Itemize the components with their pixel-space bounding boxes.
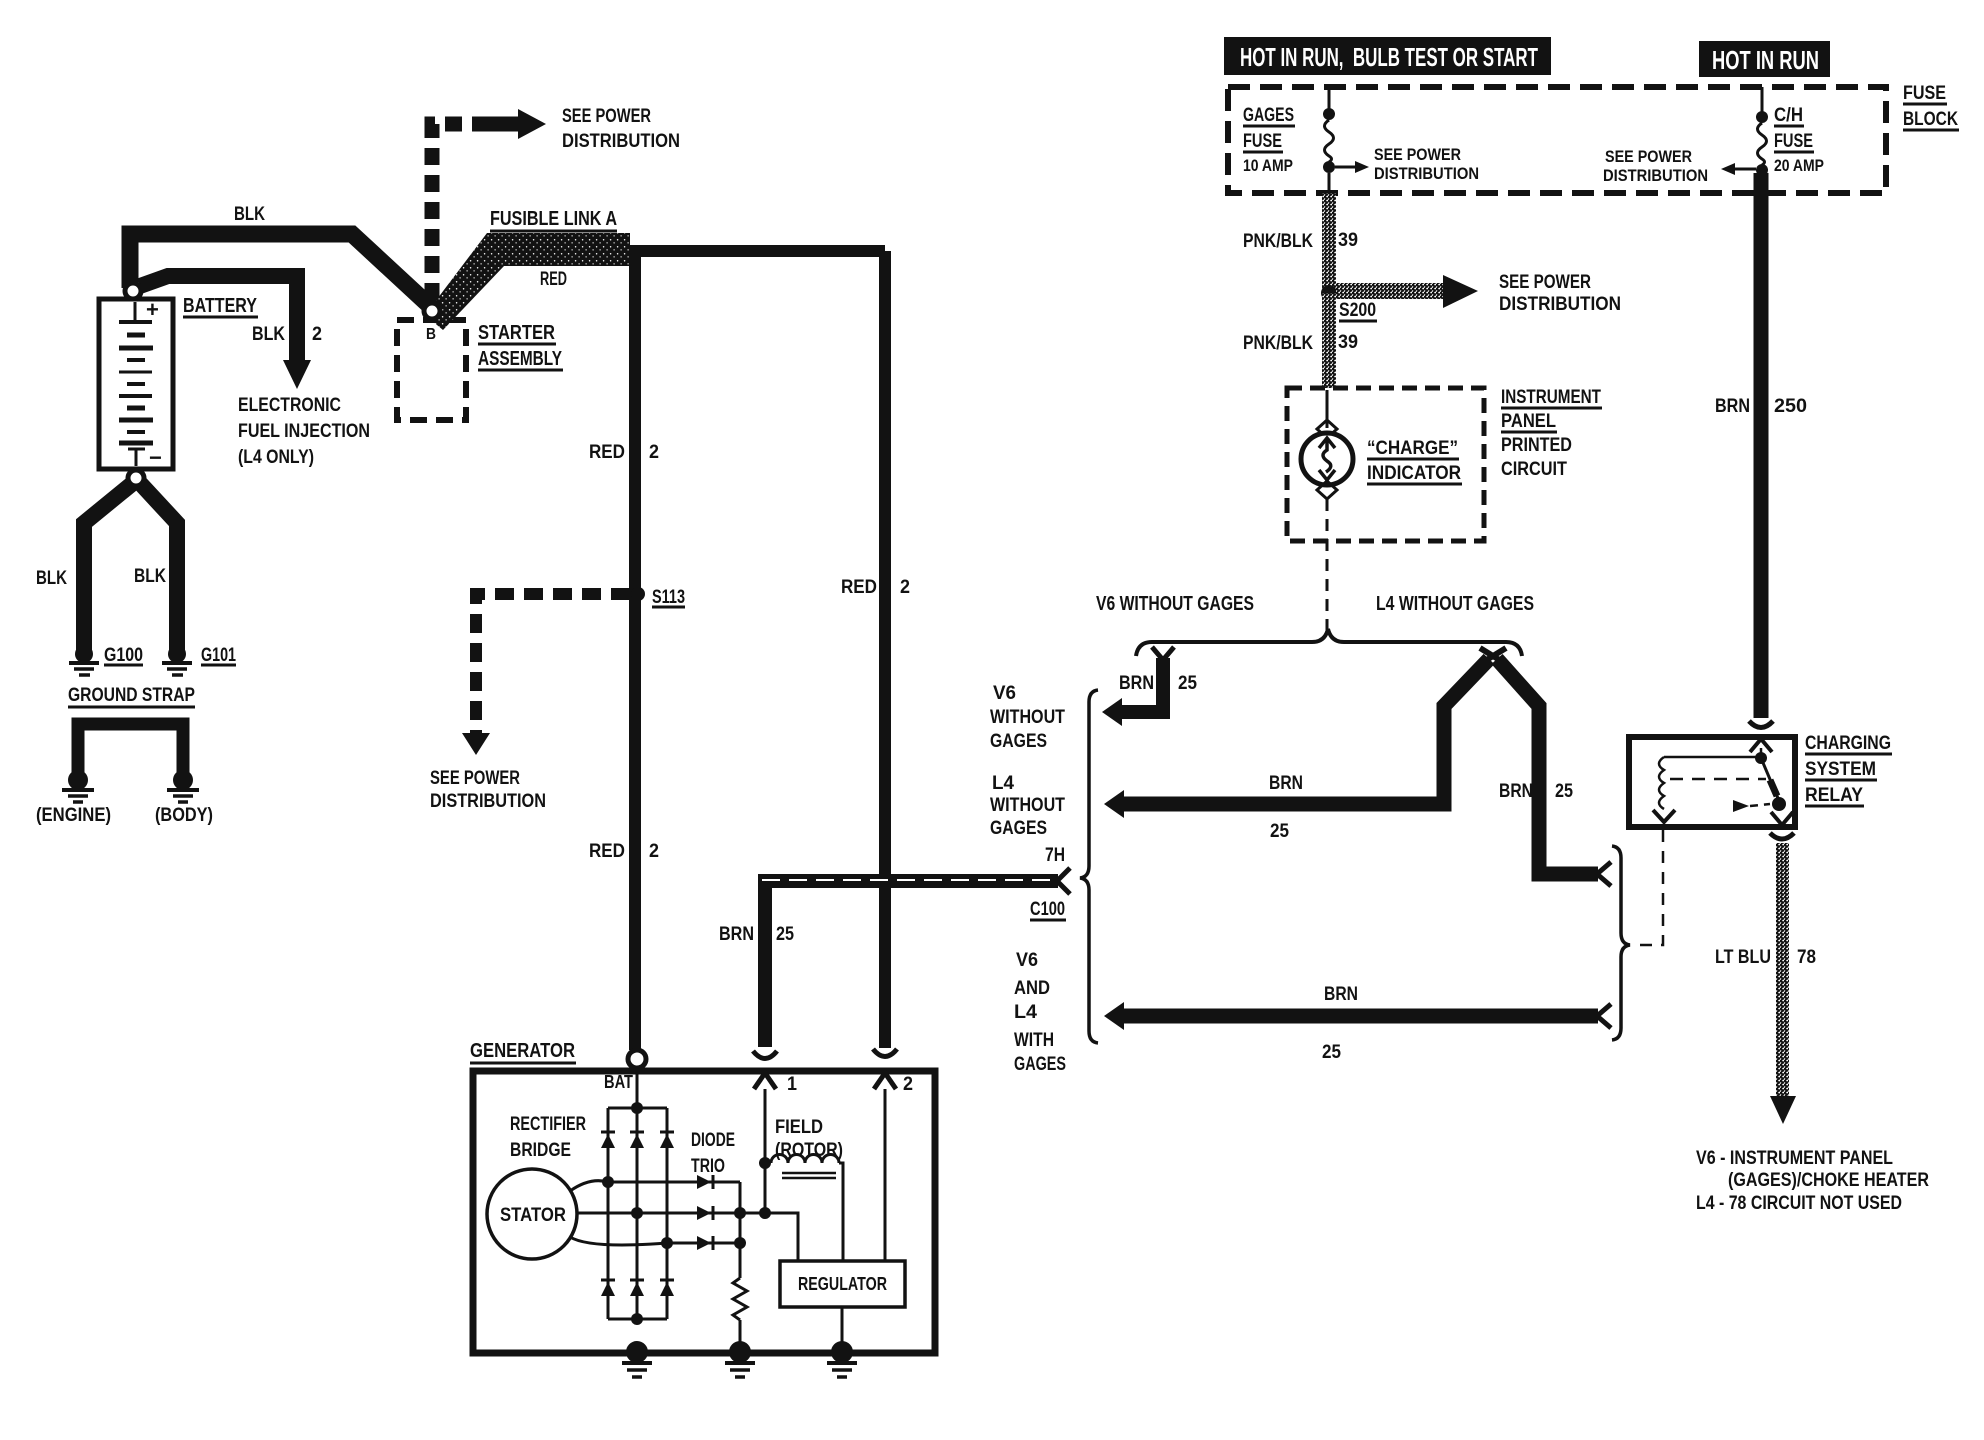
- svg-text:7H: 7H: [1045, 845, 1065, 866]
- svg-text:(ENGINE): (ENGINE): [36, 805, 111, 826]
- wire l4 right arm BRN 25 to connector: [1497, 659, 1598, 874]
- fusible link A conductor: [425, 233, 630, 330]
- svg-text:V6 - INSTRUMENT PANEL: V6 - INSTRUMENT PANEL: [1696, 1148, 1893, 1169]
- starter assembly dashed box: [397, 320, 466, 420]
- label GENERATOR: [470, 1040, 576, 1063]
- svg-text:FUSE: FUSE: [1774, 131, 1813, 152]
- svg-text:2: 2: [649, 442, 659, 463]
- relay dashed link: [1670, 778, 1766, 781]
- relay contact arrow: [1733, 800, 1749, 812]
- svg-text:HOT IN RUN, BULB TEST OR STAR: HOT IN RUN, BULB TEST OR START: [1240, 42, 1538, 72]
- starter terminal B: [424, 303, 440, 319]
- rectifier leg 1: [607, 1108, 610, 1319]
- svg-text:2: 2: [900, 577, 910, 598]
- svg-text:(L4 ONLY): (L4 ONLY): [238, 447, 314, 468]
- node field: [759, 1157, 771, 1169]
- label G101: [201, 645, 236, 666]
- C/H fuse element: [1756, 87, 1768, 176]
- relay switch blade: [1761, 758, 1780, 803]
- label column L4 WITHOUT GAGES: [990, 773, 1065, 839]
- svg-text:V6: V6: [1016, 950, 1038, 971]
- BAT terminal: [628, 1050, 646, 1068]
- svg-text:C/H: C/H: [1774, 105, 1803, 126]
- battery + terminal: [125, 283, 141, 299]
- label C/H FUSE 20 AMP: [1774, 105, 1824, 175]
- svg-text:PRINTED: PRINTED: [1501, 435, 1572, 456]
- wire BLK 2 to EFI with arrow: [140, 276, 297, 360]
- diode upper 2: [630, 1132, 644, 1148]
- label DIODE TRIO: [691, 1130, 735, 1177]
- svg-text:RED: RED: [589, 841, 625, 862]
- svg-text:C100: C100: [1030, 899, 1065, 920]
- svg-text:FIELD: FIELD: [775, 1117, 823, 1138]
- label SEE POWER DISTRIBUTION s200: [1499, 272, 1621, 315]
- terminal 1 arrow: [754, 1073, 776, 1089]
- svg-text:HOT IN RUN: HOT IN RUN: [1712, 45, 1819, 75]
- svg-text:25: 25: [776, 924, 794, 945]
- diode trio line 2: [637, 1212, 765, 1215]
- overbrace under headers: [1136, 629, 1522, 656]
- svg-text:78: 78: [1797, 947, 1816, 968]
- svg-text:RED: RED: [540, 269, 567, 290]
- node: [602, 1176, 614, 1188]
- resistor to ground: [733, 1243, 747, 1350]
- svg-text:BRN: BRN: [1324, 984, 1358, 1005]
- rectifier bridge top bus: [608, 1107, 667, 1110]
- svg-text:+: +: [146, 297, 159, 322]
- svg-text:BLOCK: BLOCK: [1903, 109, 1958, 130]
- svg-text:SYSTEM: SYSTEM: [1805, 759, 1876, 780]
- svg-text:RECTIFIER: RECTIFIER: [510, 1114, 586, 1135]
- label FUSE BLOCK: [1903, 83, 1959, 130]
- svg-text:DISTRIBUTION: DISTRIBUTION: [1499, 294, 1621, 315]
- trio diode 2: [697, 1206, 713, 1220]
- svg-text:25: 25: [1178, 673, 1197, 694]
- svg-text:WITHOUT: WITHOUT: [990, 707, 1065, 728]
- fuse block dashed box: [1228, 87, 1886, 193]
- svg-text:GROUND STRAP: GROUND STRAP: [68, 685, 195, 706]
- label column V6 AND L4 WITH GAGES: [1014, 950, 1066, 1075]
- brace C100 branches: [1080, 690, 1098, 1043]
- label BATTERY: [183, 295, 258, 317]
- rectifier bridge bottom bus: [608, 1318, 667, 1321]
- svg-text:(BODY): (BODY): [155, 805, 213, 826]
- svg-text:1: 1: [787, 1074, 797, 1095]
- connector Y v6 branch: [1152, 647, 1174, 660]
- wire regulator to ground: [841, 1307, 844, 1350]
- label SEE POWER DISTRIBUTION top: [562, 106, 680, 152]
- banner HOT IN RUN: [1699, 41, 1830, 77]
- stippled arrow S200 to see power distribution: [1336, 275, 1478, 308]
- label C100: [1030, 899, 1066, 920]
- relay coil ground arrow: [1653, 810, 1675, 822]
- svg-text:L4: L4: [992, 773, 1014, 794]
- svg-text:SEE POWER: SEE POWER: [430, 768, 520, 789]
- svg-text:−: −: [149, 445, 162, 470]
- svg-text:“CHARGE”: “CHARGE”: [1367, 438, 1458, 459]
- svg-text:V6: V6: [993, 683, 1016, 704]
- svg-text:GAGES: GAGES: [990, 818, 1047, 839]
- svg-text:SEE POWER: SEE POWER: [1374, 145, 1461, 164]
- node: [631, 1313, 643, 1325]
- svg-text:ELECTRONIC: ELECTRONIC: [238, 395, 341, 416]
- svg-text:STATOR: STATOR: [500, 1205, 566, 1226]
- svg-text:G100: G100: [104, 645, 143, 666]
- svg-text:DISTRIBUTION: DISTRIBUTION: [1603, 166, 1708, 185]
- svg-text:FUSE: FUSE: [1903, 83, 1946, 104]
- instrument panel dashed box: [1287, 388, 1484, 541]
- svg-text:FUSIBLE LINK A: FUSIBLE LINK A: [490, 208, 617, 230]
- label SEE POWER DISTRIBUTION fuse2: [1603, 147, 1708, 185]
- svg-text:PNK/BLK: PNK/BLK: [1243, 231, 1313, 252]
- svg-text:L4 - 78 CIRCUIT NOT USED: L4 - 78 CIRCUIT NOT USED: [1696, 1193, 1902, 1214]
- svg-text:SEE POWER: SEE POWER: [1605, 147, 1692, 166]
- relay output arrow bottom: [1771, 812, 1793, 825]
- svg-text:WITH: WITH: [1014, 1030, 1054, 1051]
- svg-text:RED: RED: [841, 577, 877, 598]
- wire field to regulator: [839, 1163, 843, 1261]
- svg-text:BAT: BAT: [604, 1072, 633, 1092]
- svg-text:STARTER: STARTER: [478, 322, 555, 344]
- svg-text:BRN: BRN: [1269, 773, 1303, 794]
- svg-text:V6 WITHOUT GAGES: V6 WITHOUT GAGES: [1096, 593, 1254, 615]
- svg-text:CIRCUIT: CIRCUIT: [1501, 459, 1567, 480]
- label FIELD (ROTOR): [775, 1117, 843, 1161]
- svg-text:CHARGING: CHARGING: [1805, 733, 1891, 754]
- svg-text:ASSEMBLY: ASSEMBLY: [478, 348, 562, 370]
- wire l4-without-gages left arm BRN 25: [1122, 659, 1489, 804]
- node: [1755, 752, 1767, 764]
- connector half right: [1597, 1004, 1611, 1028]
- wire BAT to rectifier bus: [636, 1068, 639, 1108]
- ground (engine): [62, 770, 94, 802]
- label SEE POWER DISTRIBUTION fuse1: [1374, 145, 1479, 183]
- svg-text:INDICATOR: INDICATOR: [1367, 463, 1461, 484]
- svg-text:S200: S200: [1339, 300, 1376, 321]
- diode trio output bus: [739, 1182, 742, 1243]
- svg-text:39: 39: [1338, 332, 1358, 353]
- svg-text:BRN: BRN: [719, 924, 754, 945]
- svg-text:2: 2: [649, 841, 659, 862]
- dashed wire S113 to power distribution arrow: [476, 594, 630, 733]
- relay output connector below box: [1770, 833, 1794, 839]
- label V6 instrument panel note: [1696, 1148, 1929, 1214]
- svg-text:BRIDGE: BRIDGE: [510, 1140, 571, 1161]
- svg-text:10 AMP: 10 AMP: [1243, 156, 1293, 175]
- svg-text:BLK: BLK: [252, 324, 285, 345]
- svg-text:PNK/BLK: PNK/BLK: [1243, 333, 1313, 354]
- arrow gages fuse to see power distribution: [1335, 161, 1369, 173]
- wire RED vertical left to generator BAT: [629, 251, 641, 1050]
- ground G101: [162, 645, 192, 675]
- relay internal wire: [1664, 748, 1761, 757]
- ground strap conductor: [78, 724, 183, 775]
- svg-text:RELAY: RELAY: [1805, 785, 1863, 806]
- svg-text:25: 25: [1270, 821, 1289, 842]
- stator lead 3: [570, 1237, 667, 1245]
- diode trio line 1: [608, 1181, 740, 1184]
- terminal 1 wire inside: [764, 1089, 767, 1213]
- node: [631, 1102, 643, 1114]
- svg-text:2: 2: [312, 324, 322, 345]
- svg-text:25: 25: [1322, 1042, 1341, 1063]
- svg-text:L4: L4: [1014, 1002, 1037, 1023]
- label GAGES FUSE 10 AMP: [1243, 105, 1295, 175]
- label CHARGING SYSTEM RELAY: [1805, 733, 1892, 806]
- relay contact node: [1772, 797, 1786, 811]
- svg-text:BRN: BRN: [1119, 673, 1154, 694]
- stator lead 2: [577, 1212, 637, 1215]
- svg-text:BLK: BLK: [36, 568, 67, 589]
- wire LT BLU 78 stippled: [1776, 843, 1789, 1096]
- generator ground 3: [827, 1341, 857, 1377]
- label STARTER ASSEMBLY: [478, 322, 563, 370]
- charging system relay box: [1629, 737, 1795, 827]
- trio diode 3: [697, 1236, 713, 1250]
- node S113: [631, 587, 645, 601]
- battery: [99, 297, 173, 470]
- wire BRN 250: [1754, 173, 1769, 718]
- svg-text:SEE POWER: SEE POWER: [562, 106, 651, 127]
- relay coil: [1659, 757, 1664, 809]
- arrow C/H fuse to see power distribution: [1721, 163, 1756, 175]
- wire C100 harness horizontal: [758, 874, 1058, 888]
- dashed wire relay to brace: [1633, 830, 1663, 945]
- svg-text:BLK: BLK: [134, 566, 166, 587]
- label INSTRUMENT PANEL PRINTED CIRCUIT: [1501, 387, 1602, 480]
- node: [631, 1207, 643, 1219]
- svg-text:G101: G101: [201, 645, 236, 666]
- terminal 2 connector: [873, 1049, 897, 1057]
- battery BLK cable to starter: [130, 234, 432, 308]
- wire terminal 2 to regulator: [884, 1089, 887, 1261]
- connector half: [1597, 862, 1611, 886]
- label RECTIFIER BRIDGE: [510, 1114, 586, 1161]
- wire BRN 25 v6-without-gages arm: [1120, 658, 1163, 712]
- diode trio line 3: [667, 1242, 740, 1245]
- svg-text:GENERATOR: GENERATOR: [470, 1040, 575, 1062]
- svg-text:LT BLU: LT BLU: [1715, 947, 1771, 968]
- svg-text:DISTRIBUTION: DISTRIBUTION: [430, 791, 546, 812]
- label S113: [652, 587, 685, 608]
- svg-text:TRIO: TRIO: [691, 1156, 725, 1177]
- regulator box: [780, 1261, 905, 1307]
- wire BRN 25 with-gages to connector: [1122, 1009, 1598, 1024]
- battery - terminal: [128, 470, 144, 486]
- relay feed connector: [1749, 721, 1773, 728]
- ground (body): [167, 770, 199, 802]
- field core lines: [782, 1173, 836, 1178]
- rectifier leg 3: [666, 1108, 669, 1319]
- svg-text:DIODE: DIODE: [691, 1130, 735, 1151]
- svg-text:(ROTOR): (ROTOR): [775, 1140, 843, 1161]
- svg-text:WITHOUT: WITHOUT: [990, 795, 1065, 816]
- stator circle: [487, 1169, 577, 1259]
- trio diode 1: [697, 1175, 713, 1189]
- svg-text:INSTRUMENT: INSTRUMENT: [1501, 387, 1601, 408]
- diode lower 3: [660, 1280, 674, 1296]
- svg-text:20 AMP: 20 AMP: [1774, 156, 1824, 175]
- node: [734, 1237, 746, 1249]
- generator box: [473, 1071, 935, 1353]
- banner HOT IN RUN, BULB TEST OR START: [1224, 37, 1551, 75]
- label column V6 WITHOUT GAGES: [990, 683, 1065, 752]
- svg-text:GAGES: GAGES: [1243, 105, 1294, 126]
- wire RED horizontal top: [630, 245, 885, 257]
- label FUSIBLE LINK A: [490, 208, 617, 231]
- svg-text:BLK: BLK: [234, 204, 265, 225]
- terminal 1 connector: [753, 1051, 777, 1059]
- wire trio to regulator: [765, 1213, 798, 1261]
- diode upper 3: [660, 1132, 674, 1148]
- stator lead 1: [570, 1181, 608, 1191]
- charge indicator bulb: [1301, 390, 1353, 630]
- svg-text:B: B: [426, 326, 436, 343]
- gages fuse element: [1323, 87, 1335, 193]
- label CHARGE INDICATOR: [1367, 438, 1462, 484]
- svg-text:AND: AND: [1014, 978, 1050, 999]
- diode upper 1: [601, 1132, 615, 1148]
- label S200: [1339, 300, 1377, 321]
- dashed wire starter to power distribution arrow: [432, 124, 490, 300]
- diode lower 1: [601, 1280, 615, 1296]
- svg-text:BRN: BRN: [1715, 396, 1750, 417]
- svg-text:39: 39: [1338, 230, 1358, 251]
- svg-text:GAGES: GAGES: [1014, 1054, 1066, 1075]
- svg-text:PANEL: PANEL: [1501, 411, 1556, 432]
- svg-text:DISTRIBUTION: DISTRIBUTION: [1374, 164, 1479, 183]
- node: [661, 1237, 673, 1249]
- ground G100: [69, 645, 99, 675]
- svg-text:SEE POWER: SEE POWER: [1499, 272, 1591, 293]
- generator ground 1: [622, 1341, 652, 1377]
- diode lower 2: [630, 1280, 644, 1296]
- node S200: [1321, 285, 1337, 301]
- label ELECTRONIC FUEL INJECTION (L4 ONLY): [238, 395, 370, 468]
- field coil: [771, 1155, 839, 1164]
- brace relay output: [1612, 846, 1630, 1040]
- rectifier leg 2: [636, 1108, 639, 1319]
- label SEE POWER DISTRIBUTION left: [430, 768, 546, 812]
- connector C100: [1057, 868, 1070, 894]
- generator ground 2: [725, 1341, 755, 1377]
- svg-text:2: 2: [903, 1074, 913, 1095]
- svg-text:FUEL INJECTION: FUEL INJECTION: [238, 421, 370, 442]
- svg-text:250: 250: [1774, 396, 1807, 417]
- svg-text:GAGES: GAGES: [990, 731, 1047, 752]
- wire PNK/BLK lower: [1322, 293, 1336, 388]
- label G100: [104, 645, 143, 666]
- connector X l4 branch: [1480, 648, 1506, 664]
- svg-text:(GAGES)/CHOKE HEATER: (GAGES)/CHOKE HEATER: [1728, 1170, 1929, 1191]
- svg-text:25: 25: [1555, 781, 1573, 802]
- wire RED vertical right to generator terminal 2: [879, 251, 891, 1048]
- node: [734, 1207, 746, 1219]
- wire PNK/BLK upper: [1322, 193, 1336, 293]
- svg-text:BATTERY: BATTERY: [183, 295, 258, 317]
- svg-text:S113: S113: [652, 587, 685, 608]
- relay terminal arrow top: [1750, 739, 1772, 752]
- label GROUND STRAP: [68, 685, 195, 707]
- wire BRN 25 to generator terminal 1: [758, 881, 772, 1047]
- terminal 2 arrow: [874, 1073, 896, 1089]
- svg-text:RED: RED: [589, 442, 625, 463]
- node: [759, 1207, 771, 1219]
- svg-text:L4 WITHOUT GAGES: L4 WITHOUT GAGES: [1376, 593, 1534, 615]
- svg-text:BRN: BRN: [1499, 781, 1533, 802]
- svg-text:FUSE: FUSE: [1243, 131, 1282, 152]
- wire battery negative to grounds: [84, 483, 133, 650]
- svg-text:REGULATOR: REGULATOR: [798, 1274, 887, 1294]
- svg-text:DISTRIBUTION: DISTRIBUTION: [562, 131, 680, 152]
